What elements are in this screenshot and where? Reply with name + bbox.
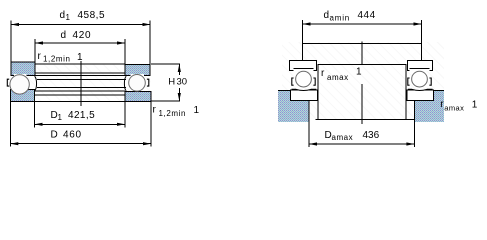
top washer right section (hatched) bbox=[125, 65, 150, 76]
cage arc left of left ball (right figure) bbox=[292, 78, 294, 85]
label d 420 bbox=[61, 30, 92, 41]
svg-text:1: 1 bbox=[77, 52, 83, 63]
shaft block bbox=[316, 65, 415, 120]
ball left section bbox=[10, 75, 29, 94]
svg-text:d: d bbox=[60, 10, 66, 21]
Damax extension line right bbox=[413, 122, 415, 147]
shaft shoulder top edge bbox=[303, 43, 422, 45]
bottom washer raceway dip left (right figure) bbox=[292, 89, 317, 90]
label D 460 bbox=[51, 130, 82, 141]
svg-text:1: 1 bbox=[66, 13, 71, 22]
dimension Damax 436 : dim line bbox=[309, 142, 414, 145]
svg-text:436: 436 bbox=[363, 130, 380, 141]
cage arc left of right ball (right figure) bbox=[408, 78, 410, 85]
left housing block (hatched) bbox=[278, 91, 309, 122]
svg-text:D: D bbox=[51, 130, 58, 141]
raceway notch in top washer left (left figure) bbox=[14, 74, 27, 76]
svg-text:d: d bbox=[61, 30, 67, 41]
label r 1,2min 1 bottom right bbox=[153, 104, 200, 118]
svg-text:1,2min: 1,2min bbox=[159, 109, 187, 118]
cage arc left of right ball bbox=[124, 76, 126, 91]
D1 extension line right bbox=[124, 101, 126, 127]
centerline right figure upper bbox=[361, 42, 363, 66]
d1 extension line right bbox=[149, 21, 151, 65]
svg-text:420: 420 bbox=[73, 30, 92, 41]
cage arc right of right ball (right figure) bbox=[429, 78, 431, 85]
faint texture left bearing interior bbox=[12, 65, 151, 102]
svg-text:458,5: 458,5 bbox=[78, 10, 106, 21]
svg-text:amax: amax bbox=[327, 73, 349, 82]
bottom washer right section (hatched) bbox=[125, 91, 151, 101]
top washer bottom face through bore bbox=[35, 74, 125, 76]
svg-text:421,5: 421,5 bbox=[68, 110, 95, 121]
svg-text:444: 444 bbox=[358, 10, 376, 21]
top (shaft) washer left section bbox=[290, 61, 317, 71]
dimension D 460 : dim line bbox=[10, 142, 151, 145]
top washer groove notch right (right figure) bbox=[409, 70, 429, 72]
svg-text:1: 1 bbox=[356, 67, 362, 78]
dimension d1 458,5 : dim line bbox=[11, 23, 151, 26]
svg-text:1: 1 bbox=[194, 105, 200, 116]
label r amax (upper) bbox=[321, 68, 349, 82]
top washer top edge across bore bbox=[35, 63, 125, 65]
ball right section (right figure) bbox=[412, 71, 428, 87]
bottom washer raceway shoulder bbox=[35, 94, 125, 96]
d extension line right bbox=[124, 39, 126, 64]
H dim line with arrows bbox=[178, 64, 181, 101]
ball left section (right figure) bbox=[296, 71, 312, 87]
cage bottom line bbox=[37, 87, 126, 89]
svg-text:1: 1 bbox=[58, 113, 63, 122]
raceway notch in top washer right (left figure) bbox=[131, 74, 145, 76]
svg-text:amax: amax bbox=[332, 133, 354, 142]
dimension d 420 : dim line bbox=[35, 41, 125, 44]
label r 1,2min top-left bbox=[38, 51, 71, 64]
dimension damin 444 : dim line bbox=[303, 22, 422, 25]
label H 30 bbox=[168, 77, 187, 88]
label D1 421,5 bbox=[51, 110, 96, 122]
D extension line right bbox=[150, 101, 152, 146]
cage arc right of left ball bbox=[35, 76, 37, 91]
label r amax 1 (lower right) bbox=[440, 99, 478, 113]
svg-text:r: r bbox=[38, 51, 42, 62]
top washer left section (hatched) bbox=[11, 62, 35, 75]
svg-text:1,2min: 1,2min bbox=[43, 55, 71, 64]
bottom (housing) washer left section bbox=[290, 90, 317, 101]
svg-text:amax: amax bbox=[444, 104, 464, 113]
top washer groove notch left (right figure) bbox=[293, 70, 313, 72]
faint texture: right figure interior bbox=[282, 42, 444, 120]
ball right section bbox=[129, 75, 146, 92]
centerline left figure bbox=[80, 61, 82, 106]
svg-text:r: r bbox=[153, 104, 157, 115]
svg-text:d: d bbox=[324, 10, 330, 21]
cage arc left of left ball bbox=[7, 79, 9, 86]
top (shaft) washer right section bbox=[408, 61, 433, 71]
label Damax 436 bbox=[325, 130, 380, 142]
bottom washer bottom edge across bore bbox=[35, 100, 126, 102]
bottom washer top face through bore bbox=[35, 90, 125, 92]
svg-text:1: 1 bbox=[472, 100, 478, 111]
d1 extension line left bbox=[10, 21, 12, 65]
svg-text:460: 460 bbox=[63, 130, 82, 141]
Damax extension line left bbox=[308, 122, 310, 147]
svg-text:H: H bbox=[168, 77, 175, 88]
D extension line left bbox=[9, 101, 11, 146]
label damin 444 bbox=[324, 10, 376, 23]
right housing block (hatched) bbox=[415, 91, 445, 122]
damin extension line right bbox=[421, 20, 423, 61]
D1 extension line left bbox=[34, 101, 36, 127]
bottom washer raceway dip right (right figure) bbox=[408, 89, 433, 90]
damin extension line left bbox=[302, 20, 304, 61]
dimension D1 421,5 : dim line bbox=[35, 123, 126, 126]
svg-text:amin: amin bbox=[330, 14, 351, 23]
d extension line left bbox=[34, 39, 36, 64]
svg-text:30: 30 bbox=[177, 77, 188, 88]
H bottom extension line bbox=[151, 100, 180, 102]
bottom (housing) washer right section bbox=[407, 90, 434, 101]
bore lines seen through bore: top washer raceway shoulder bbox=[35, 72, 125, 74]
centerline right figure lower bbox=[361, 84, 363, 124]
dimension H 30 : top extension line bbox=[151, 63, 180, 65]
cage top line bbox=[37, 78, 126, 80]
cage arc right of right ball bbox=[147, 79, 149, 86]
label d1 458,5 bbox=[60, 10, 106, 22]
bottom washer left section (hatched) bbox=[10, 89, 34, 101]
cage arc right of left ball (right figure) bbox=[313, 78, 315, 85]
